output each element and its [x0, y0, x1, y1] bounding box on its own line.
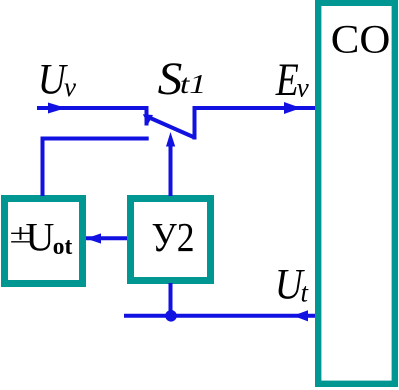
arrow Ev [284, 102, 301, 114]
wire feedback riser [41, 139, 45, 197]
arrow switch control [166, 132, 175, 147]
label St1 [158, 54, 207, 105]
label У2 [152, 214, 195, 260]
svg-text:t1: t1 [180, 69, 206, 99]
arrow Uv [48, 103, 66, 114]
block У2 [131, 199, 211, 281]
label Ev [275, 55, 309, 106]
label Ut [275, 262, 310, 309]
label ±Uot [10, 215, 73, 261]
svg-text:ot: ot [53, 234, 73, 260]
svg-text:v: v [64, 72, 76, 102]
label CO [331, 17, 391, 62]
label Uv [38, 57, 76, 104]
block U0t [5, 199, 83, 284]
svg-text:t: t [301, 278, 310, 308]
switch St1 left stub [145, 106, 149, 126]
switch St1 blade [148, 117, 195, 138]
wire switch control [169, 145, 173, 196]
switch St1 blade arrowhead [143, 114, 153, 124]
wire Ut [124, 314, 315, 318]
block CO [318, 3, 395, 384]
junction node [165, 310, 177, 322]
svg-text:U: U [26, 215, 55, 260]
switch St1 right stub [193, 106, 197, 140]
arrow Ut [293, 310, 308, 321]
wire У2 to U0t [86, 236, 127, 240]
wire Uv [37, 106, 147, 110]
wire У2 bottom drop [169, 283, 173, 316]
svg-text:S: S [158, 54, 183, 105]
wire feedback horizontal [41, 137, 149, 141]
arrow into U0t [86, 233, 101, 243]
svg-text:CO: CO [331, 17, 391, 62]
svg-text:v: v [297, 73, 309, 103]
svg-text:E: E [275, 55, 299, 106]
wire Ev [195, 106, 316, 110]
svg-text:У2: У2 [152, 214, 195, 260]
